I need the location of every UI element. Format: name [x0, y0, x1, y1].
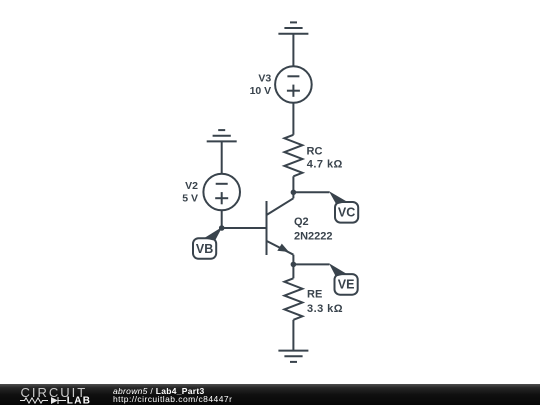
resistor RE	[284, 278, 302, 320]
node E junction dot	[291, 262, 297, 268]
node B junction dot	[219, 225, 225, 231]
flag pointer VC	[329, 191, 347, 204]
wire RC bottom to collector	[292, 176, 294, 198]
wire V2 bottom to node B	[221, 210, 223, 228]
node label VC	[335, 202, 358, 223]
wire node E to VE flag	[293, 263, 329, 265]
svg-text:VE: VE	[338, 278, 355, 292]
wire RE bottom to ground G3	[292, 320, 294, 351]
wire ground G1 to V3 top	[292, 34, 294, 66]
label Q2 2N2222	[294, 216, 333, 243]
svg-text:LAB: LAB	[67, 396, 91, 405]
svg-text:V2: V2	[185, 180, 198, 192]
resistor RC	[284, 135, 302, 177]
wire ground G2 to V2 top	[221, 141, 223, 173]
label RE 3.3 kΩ	[307, 289, 343, 315]
footer watermark bar	[0, 384, 540, 405]
footer credit text	[113, 388, 232, 404]
svg-text:RC: RC	[307, 146, 323, 158]
label RC 4.7 kΩ	[307, 146, 343, 171]
svg-text:V3: V3	[258, 73, 271, 85]
svg-text:RE: RE	[307, 289, 322, 301]
voltage source V2	[203, 174, 240, 211]
label V3 10 V	[250, 73, 272, 98]
wire emitter to node E	[292, 255, 294, 279]
node C junction dot	[291, 190, 297, 196]
flag pointer VB	[204, 227, 222, 241]
transistor Q2 emitter line	[267, 241, 294, 255]
node label VB	[193, 238, 216, 259]
wire node B to base	[222, 227, 267, 229]
svg-text:5 V: 5 V	[182, 193, 198, 205]
wire V3 bottom to RC top	[292, 103, 294, 135]
voltage source V3	[275, 66, 312, 103]
svg-text:VC: VC	[338, 206, 355, 220]
flag pointer VE	[329, 263, 347, 276]
svg-text:2N2222: 2N2222	[294, 231, 333, 243]
transistor Q2 base bar	[266, 201, 268, 255]
transistor Q2 emitter arrow	[277, 244, 289, 252]
svg-text:4.7 kΩ: 4.7 kΩ	[307, 159, 343, 171]
ground G3 (bottom)	[278, 351, 308, 362]
transistor Q2 collector line	[267, 198, 294, 215]
node label VE	[335, 274, 358, 295]
label V2 5 V	[182, 180, 198, 205]
ground G1 (top, above V3)	[278, 22, 308, 33]
CircuitLab logo	[0, 384, 110, 405]
svg-text:VB: VB	[196, 242, 213, 256]
ground G2 (above V2)	[207, 130, 237, 141]
wire node C to VC flag	[293, 191, 329, 193]
svg-text:3.3 kΩ: 3.3 kΩ	[307, 303, 343, 315]
svg-text:Q2: Q2	[294, 216, 309, 228]
svg-text:10 V: 10 V	[250, 85, 272, 97]
